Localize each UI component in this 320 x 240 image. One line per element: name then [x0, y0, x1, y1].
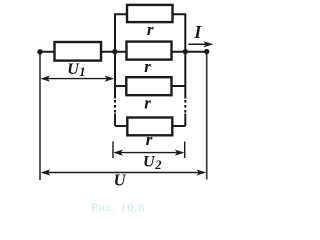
wire right bus dotted — [184, 100, 186, 113]
wire right terminal — [206, 52, 208, 180]
wire row 3 — [115, 85, 185, 87]
node junction left terminal — [37, 49, 42, 54]
node junction right bus — [183, 49, 188, 54]
wire left bus upper — [115, 14, 185, 98]
svg-text:2: 2 — [154, 158, 161, 172]
wire row 4 — [115, 125, 185, 127]
resistor r row 4 — [127, 118, 172, 136]
svg-text:Рис. 10.8: Рис. 10.8 — [91, 200, 145, 214]
svg-text:1: 1 — [79, 65, 85, 79]
node junction right terminal — [204, 49, 209, 54]
resistor r row 3 — [126, 77, 171, 95]
svg-text:r: r — [146, 130, 153, 149]
dimension arrow U — [41, 169, 207, 175]
wire main horizontal — [40, 51, 207, 53]
wire right bus lower — [184, 114, 186, 127]
resistor R (series, unlabeled) — [55, 42, 102, 61]
resistor r row 2 — [127, 42, 172, 60]
svg-text:r: r — [144, 57, 151, 76]
svg-text:r: r — [147, 20, 154, 39]
dimension arrow U1 — [40, 76, 114, 82]
wire left terminal — [39, 52, 41, 180]
wire left bus lower — [114, 114, 116, 127]
svg-text:I: I — [193, 22, 202, 42]
current arrow I — [189, 41, 214, 47]
dimension arrow U2 — [113, 150, 184, 156]
svg-text:r: r — [144, 94, 151, 113]
svg-text:U: U — [143, 153, 156, 170]
wire left bus dotted — [114, 100, 116, 113]
resistor r row 1 — [127, 5, 173, 22]
svg-text:U: U — [114, 171, 127, 190]
dimension tick U2 left — [112, 142, 114, 159]
dimension tick U2 right — [184, 142, 186, 159]
node junction left bus — [112, 49, 117, 54]
